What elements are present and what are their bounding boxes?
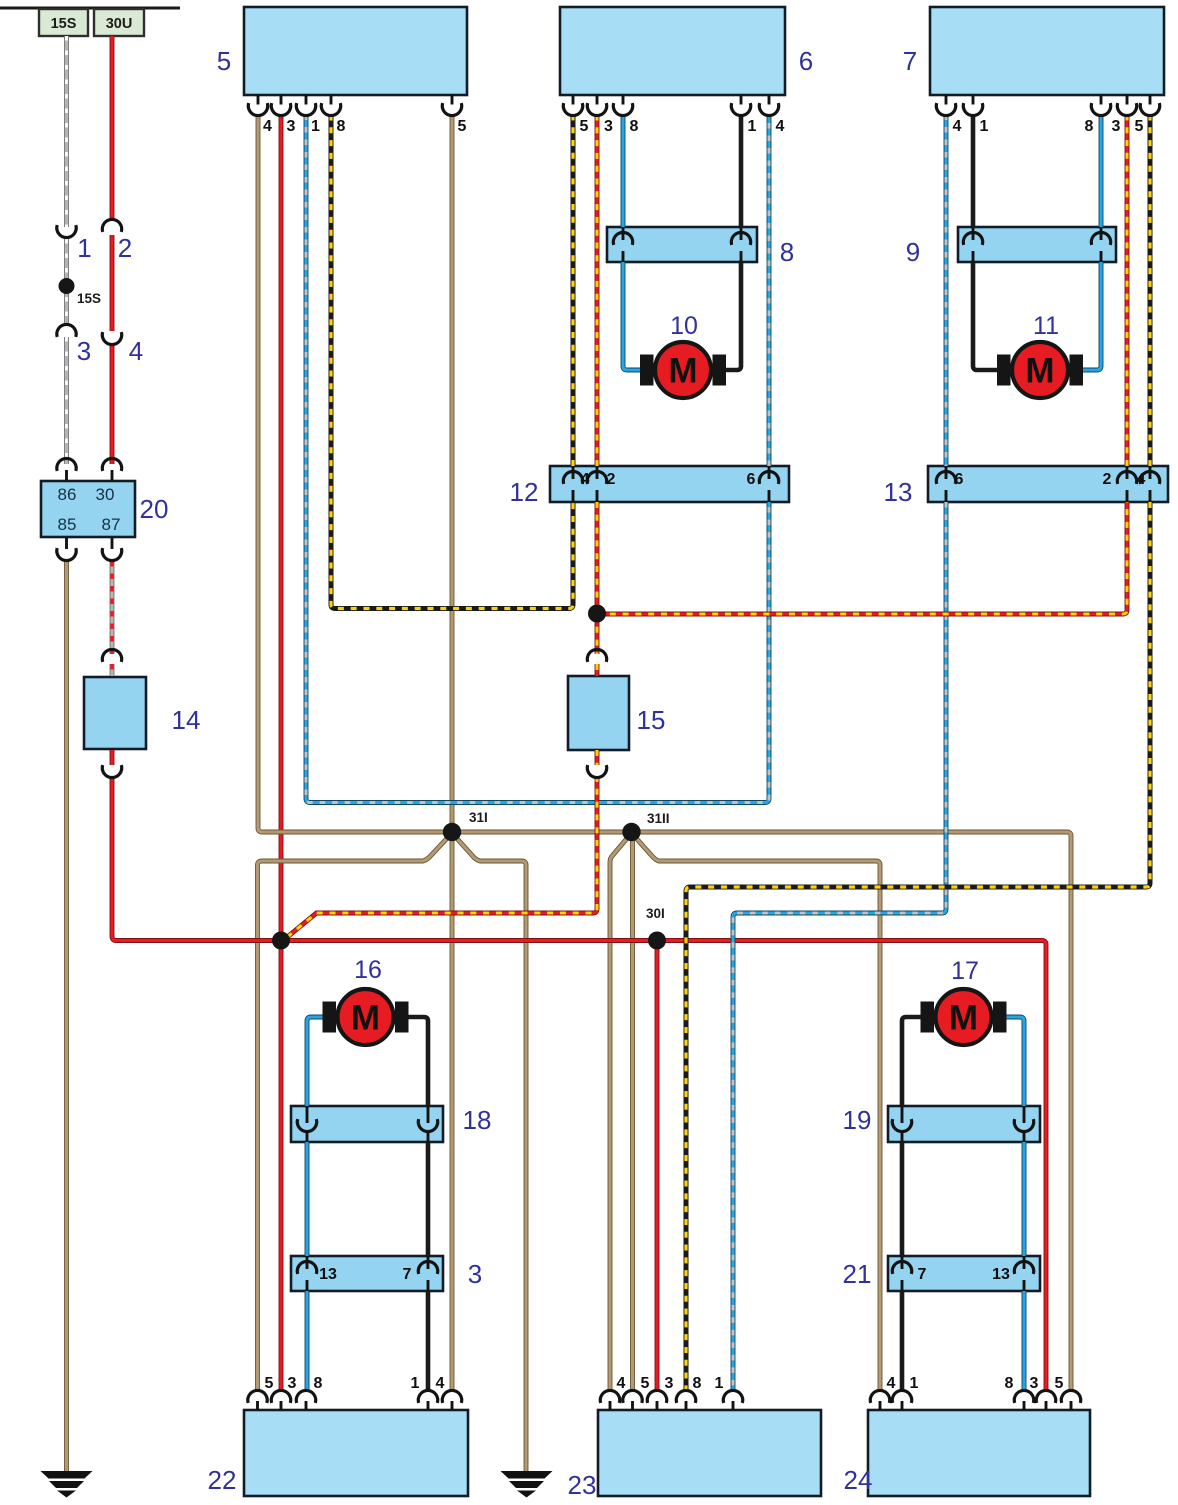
svg-text:1: 1 xyxy=(311,118,320,135)
svg-text:18: 18 xyxy=(463,1105,492,1135)
motor 11 xyxy=(997,342,1083,398)
svg-text:4: 4 xyxy=(263,118,272,135)
box5 pin 5 xyxy=(442,95,461,116)
wire red-yellow 7pin3 upper xyxy=(1125,115,1130,467)
box24 pin 1 xyxy=(892,1390,911,1410)
wire black-yellow 6pin5 upper xyxy=(571,115,576,467)
box6 pin 8 xyxy=(613,95,632,116)
svg-text:M: M xyxy=(351,999,380,1038)
wire 14 stub top xyxy=(110,664,115,676)
relay20 pin86 connector xyxy=(57,458,76,481)
wire black 3 to 22pin1 xyxy=(426,1291,431,1391)
svg-text:23: 23 xyxy=(568,1470,597,1500)
svg-text:4: 4 xyxy=(887,1375,896,1392)
box5 pin 3 xyxy=(271,95,290,116)
wire blue 7pin8 to motor11 xyxy=(1080,262,1101,370)
relay20 pin30 connector xyxy=(102,458,121,481)
svg-text:8: 8 xyxy=(337,118,346,135)
box7 pin 1 xyxy=(963,95,982,116)
wire black motor17 to 19 xyxy=(902,1017,921,1106)
node 15S junction xyxy=(59,278,75,294)
connector8 left pin xyxy=(613,227,632,262)
svg-text:31I: 31I xyxy=(469,810,488,825)
svg-text:14: 14 xyxy=(172,705,201,735)
component15 top connector xyxy=(587,649,606,661)
connector19 right pin xyxy=(1014,1106,1033,1142)
box22 pin 5 xyxy=(248,1390,267,1410)
svg-text:13: 13 xyxy=(992,1266,1010,1283)
wire relay85 brown to ground xyxy=(64,561,69,1471)
component 14 xyxy=(84,677,146,749)
connector9 right pin xyxy=(1091,227,1110,262)
svg-text:86: 86 xyxy=(58,485,77,504)
control unit 22 xyxy=(244,1410,468,1496)
wire red feed 14 to 24pin3 xyxy=(112,776,1046,1391)
connector13 pin2 xyxy=(1117,466,1136,502)
connector13 pin6 xyxy=(936,466,955,502)
svg-text:8: 8 xyxy=(314,1375,323,1392)
svg-text:22: 22 xyxy=(208,1465,237,1495)
control unit 23 xyxy=(598,1410,821,1496)
svg-text:5: 5 xyxy=(1135,118,1144,135)
wire blue-gray 7pin4 upper xyxy=(944,115,949,467)
wire red-yellow 15 to red node xyxy=(286,776,598,939)
connector21 pin13 xyxy=(1014,1256,1033,1291)
svg-text:8: 8 xyxy=(780,237,794,267)
wire red-yellow 6pin3 to node xyxy=(595,502,600,614)
control unit 6 xyxy=(560,7,785,95)
bus feed line xyxy=(0,7,180,10)
svg-text:1: 1 xyxy=(411,1375,420,1392)
wire blue 7pin8 upper xyxy=(1099,115,1104,228)
wire blue 6pin8 upper xyxy=(621,115,626,228)
wire brown 31II right leg to 24pin4 xyxy=(632,833,881,1391)
connector 12 xyxy=(550,466,789,502)
wire blue-gray 7pin4 to 23pin1 xyxy=(733,502,946,1391)
svg-text:M: M xyxy=(1025,352,1054,391)
relay 20 xyxy=(41,481,135,537)
box6 pin 4 xyxy=(759,95,778,116)
svg-text:M: M xyxy=(949,999,978,1038)
connector 19 xyxy=(888,1106,1040,1142)
wire blue 21 to 24pin8 xyxy=(1022,1291,1027,1391)
connector13 pin4 xyxy=(1140,466,1159,502)
wire red-yellow node to 7pin3 xyxy=(597,502,1127,614)
connector18 right pin xyxy=(418,1106,437,1142)
wire black 18 to 3 xyxy=(426,1142,431,1256)
svg-text:5: 5 xyxy=(580,118,589,135)
svg-text:10: 10 xyxy=(670,312,698,340)
wire black 21 to 24pin1 xyxy=(900,1291,905,1391)
connector18 left pin xyxy=(297,1106,316,1142)
wire brown 31I left leg to 22pin5 xyxy=(258,833,453,1391)
svg-text:8: 8 xyxy=(1085,118,1094,135)
wire red 5pin3 to 22pin3 xyxy=(279,115,284,1392)
wire red 30I branch to 23pin3 xyxy=(655,941,660,1392)
wire black 6pin1 upper xyxy=(739,115,744,228)
box23 pin 5 xyxy=(623,1390,642,1410)
wire black 7pin1 upper xyxy=(971,115,976,228)
connector 9 xyxy=(958,227,1116,262)
svg-text:3: 3 xyxy=(77,336,91,366)
relay20 pin87 connector xyxy=(102,537,121,561)
node 31II xyxy=(622,823,640,841)
svg-text:13: 13 xyxy=(884,477,913,507)
connector 3 (inline) xyxy=(57,324,76,336)
svg-text:9: 9 xyxy=(906,237,920,267)
connector 1 xyxy=(57,225,76,237)
wire 15S gray segment c xyxy=(64,337,69,464)
svg-text:15S: 15S xyxy=(51,16,77,32)
connector 18 xyxy=(291,1106,443,1142)
terminal 30U xyxy=(94,9,144,36)
component 15 xyxy=(568,676,629,750)
connector9 left pin xyxy=(963,227,982,262)
svg-text:16: 16 xyxy=(354,956,382,984)
wire blue 19 to 21 xyxy=(1022,1142,1027,1256)
wire blue-gray 6pin4 upper xyxy=(767,115,772,467)
svg-text:3: 3 xyxy=(1112,118,1121,135)
wire black 6pin1 to motor10 xyxy=(723,262,741,370)
svg-text:3: 3 xyxy=(604,118,613,135)
svg-text:6: 6 xyxy=(955,471,964,488)
svg-text:2: 2 xyxy=(118,233,132,263)
node 31I xyxy=(443,823,461,841)
svg-text:2: 2 xyxy=(1103,471,1112,488)
box24 pin 4 xyxy=(870,1390,889,1410)
connector12 pin4 xyxy=(563,466,582,502)
svg-text:87: 87 xyxy=(102,515,121,534)
svg-text:7: 7 xyxy=(918,1266,927,1283)
wire red-yellow node to 15 xyxy=(595,614,600,654)
wire blue 3 to 22pin8 xyxy=(305,1291,310,1391)
box6 pin 3 xyxy=(587,95,606,116)
wire blue motor17 to 19 xyxy=(1005,1017,1024,1106)
svg-text:12: 12 xyxy=(510,477,539,507)
ground mid (31) xyxy=(501,1471,553,1498)
svg-text:8: 8 xyxy=(1005,1375,1014,1392)
svg-text:85: 85 xyxy=(58,515,77,534)
svg-text:4: 4 xyxy=(436,1375,445,1392)
svg-text:8: 8 xyxy=(693,1375,702,1392)
svg-text:31II: 31II xyxy=(647,811,670,826)
wire black-yellow 7pin5 upper xyxy=(1148,115,1153,467)
wire blue-gray 5pin1 to 6pin4 xyxy=(306,115,769,803)
box7 pin 5 xyxy=(1140,95,1159,116)
wire black 19 to 21 xyxy=(900,1142,905,1256)
svg-text:17: 17 xyxy=(951,957,979,985)
connector21 pin7 xyxy=(892,1256,911,1291)
svg-text:5: 5 xyxy=(265,1375,274,1392)
connector3 pin13 xyxy=(297,1256,316,1291)
svg-text:7: 7 xyxy=(903,46,917,76)
wire 15 stub top xyxy=(595,664,600,676)
connector 3 xyxy=(291,1256,443,1291)
svg-text:30: 30 xyxy=(96,485,115,504)
svg-text:3: 3 xyxy=(287,118,296,135)
wire brown 31I right leg to ground xyxy=(452,833,526,1471)
component15 bottom connector xyxy=(587,765,606,777)
wire brown 5pin5 to 22pin4 xyxy=(450,115,455,1392)
box5 pin 8 xyxy=(321,95,340,116)
motor 10 xyxy=(640,342,726,398)
box7 pin 4 xyxy=(936,95,955,116)
box23 pin 4 xyxy=(600,1390,619,1410)
svg-text:1: 1 xyxy=(980,118,989,135)
connector 2 xyxy=(102,219,121,231)
wire 30U red segment b xyxy=(110,235,115,331)
svg-text:20: 20 xyxy=(140,494,169,524)
relay20 pin85 connector xyxy=(57,537,76,561)
box7 pin 8 xyxy=(1091,95,1110,116)
svg-text:5: 5 xyxy=(1055,1375,1064,1392)
svg-text:19: 19 xyxy=(843,1105,872,1135)
svg-text:24: 24 xyxy=(844,1465,873,1495)
connector3 pin7 xyxy=(418,1256,437,1291)
connector12 pin2 xyxy=(587,466,606,502)
ground left (31) xyxy=(41,1471,93,1498)
box23 pin 3 xyxy=(647,1390,666,1410)
svg-text:11: 11 xyxy=(1033,312,1059,340)
wire blue 6pin8 to motor10 xyxy=(623,262,643,370)
svg-text:1: 1 xyxy=(748,118,757,135)
svg-text:1: 1 xyxy=(77,233,91,263)
wire brown 5pin4 rail to 24pin5 xyxy=(258,115,1071,1392)
svg-text:8: 8 xyxy=(630,118,639,135)
svg-text:30U: 30U xyxy=(106,16,133,32)
connector 8 xyxy=(607,227,757,262)
svg-text:6: 6 xyxy=(799,46,813,76)
connector12 pin6 xyxy=(759,466,778,502)
box22 pin 4 xyxy=(442,1390,461,1410)
wire blue 18 to 3 xyxy=(305,1142,310,1256)
connector 21 xyxy=(888,1256,1040,1291)
wire red-yellow 6pin3 upper xyxy=(595,115,600,467)
component14 top connector xyxy=(102,649,121,661)
svg-text:4: 4 xyxy=(617,1375,626,1392)
terminal 15S xyxy=(39,9,88,36)
motor 16 xyxy=(323,989,409,1045)
svg-text:15: 15 xyxy=(637,705,666,735)
wire black 7pin1 to motor11 xyxy=(973,262,1000,370)
svg-text:5: 5 xyxy=(641,1375,650,1392)
svg-text:3: 3 xyxy=(288,1375,297,1392)
box5 pin 4 xyxy=(248,95,267,116)
wire 15 stub bottom xyxy=(595,750,600,765)
box7 pin 3 xyxy=(1117,95,1136,116)
box24 pin 8 xyxy=(1014,1390,1033,1410)
svg-text:2: 2 xyxy=(607,471,616,488)
connector19 left pin xyxy=(892,1106,911,1142)
wire black-yellow 5pin8 up xyxy=(331,115,573,609)
svg-text:5: 5 xyxy=(217,46,231,76)
component14 bottom connector xyxy=(102,765,121,777)
svg-text:M: M xyxy=(668,352,697,391)
svg-text:4: 4 xyxy=(581,471,590,488)
wire 15S gray segment a xyxy=(64,36,69,227)
control unit 24 xyxy=(868,1410,1090,1496)
svg-text:6: 6 xyxy=(747,471,756,488)
wire brown 31II left leg to 23pin4 xyxy=(610,833,632,1391)
box6 pin 1 xyxy=(731,95,750,116)
svg-text:3: 3 xyxy=(1030,1375,1039,1392)
motor 17 xyxy=(921,989,1007,1045)
connector 4 (inline) xyxy=(102,332,121,344)
svg-text:4: 4 xyxy=(776,118,785,135)
svg-text:30I: 30I xyxy=(646,906,665,921)
box22 pin 8 xyxy=(296,1390,315,1410)
svg-text:15S: 15S xyxy=(77,291,101,306)
control unit 5 xyxy=(244,7,467,95)
svg-text:3: 3 xyxy=(665,1375,674,1392)
box23 pin 1 xyxy=(723,1390,742,1410)
box5 pin 1 xyxy=(296,95,315,116)
wire 30U red segment a xyxy=(110,36,115,221)
box23 pin 8 xyxy=(676,1390,695,1410)
wire black-yellow 7pin5 to 23pin8 xyxy=(686,502,1150,1391)
wire 14 stub bottom xyxy=(110,750,115,765)
control unit 7 xyxy=(930,7,1164,95)
svg-text:1: 1 xyxy=(910,1375,919,1392)
box24 pin 3 xyxy=(1036,1390,1055,1410)
svg-text:4: 4 xyxy=(1137,471,1146,488)
node red-yellow junction xyxy=(588,605,606,623)
svg-text:3: 3 xyxy=(468,1259,482,1289)
wire brown 31II mid leg to 23pin5 xyxy=(630,832,635,1391)
svg-text:21: 21 xyxy=(843,1259,872,1289)
connector8 right pin xyxy=(731,227,750,262)
box22 pin 3 xyxy=(271,1390,290,1410)
svg-text:1: 1 xyxy=(715,1375,724,1392)
node 30I xyxy=(648,932,666,950)
svg-text:4: 4 xyxy=(129,336,143,366)
connector 13 xyxy=(928,466,1168,502)
svg-text:13: 13 xyxy=(319,1266,337,1283)
box6 pin 5 xyxy=(563,95,582,116)
wire blue motor16 to 18 xyxy=(307,1017,324,1106)
box22 pin 1 xyxy=(418,1390,437,1410)
svg-text:5: 5 xyxy=(458,118,467,135)
red junction node xyxy=(272,932,290,950)
box24 pin 5 xyxy=(1061,1390,1080,1410)
wire black motor16 to 18 xyxy=(407,1017,428,1106)
svg-text:7: 7 xyxy=(403,1266,412,1283)
wire relay87 gray-red to 14 xyxy=(110,561,115,654)
wire 30U red segment c xyxy=(110,345,115,464)
svg-text:4: 4 xyxy=(953,118,962,135)
wire 15S gray segment b xyxy=(64,239,69,325)
